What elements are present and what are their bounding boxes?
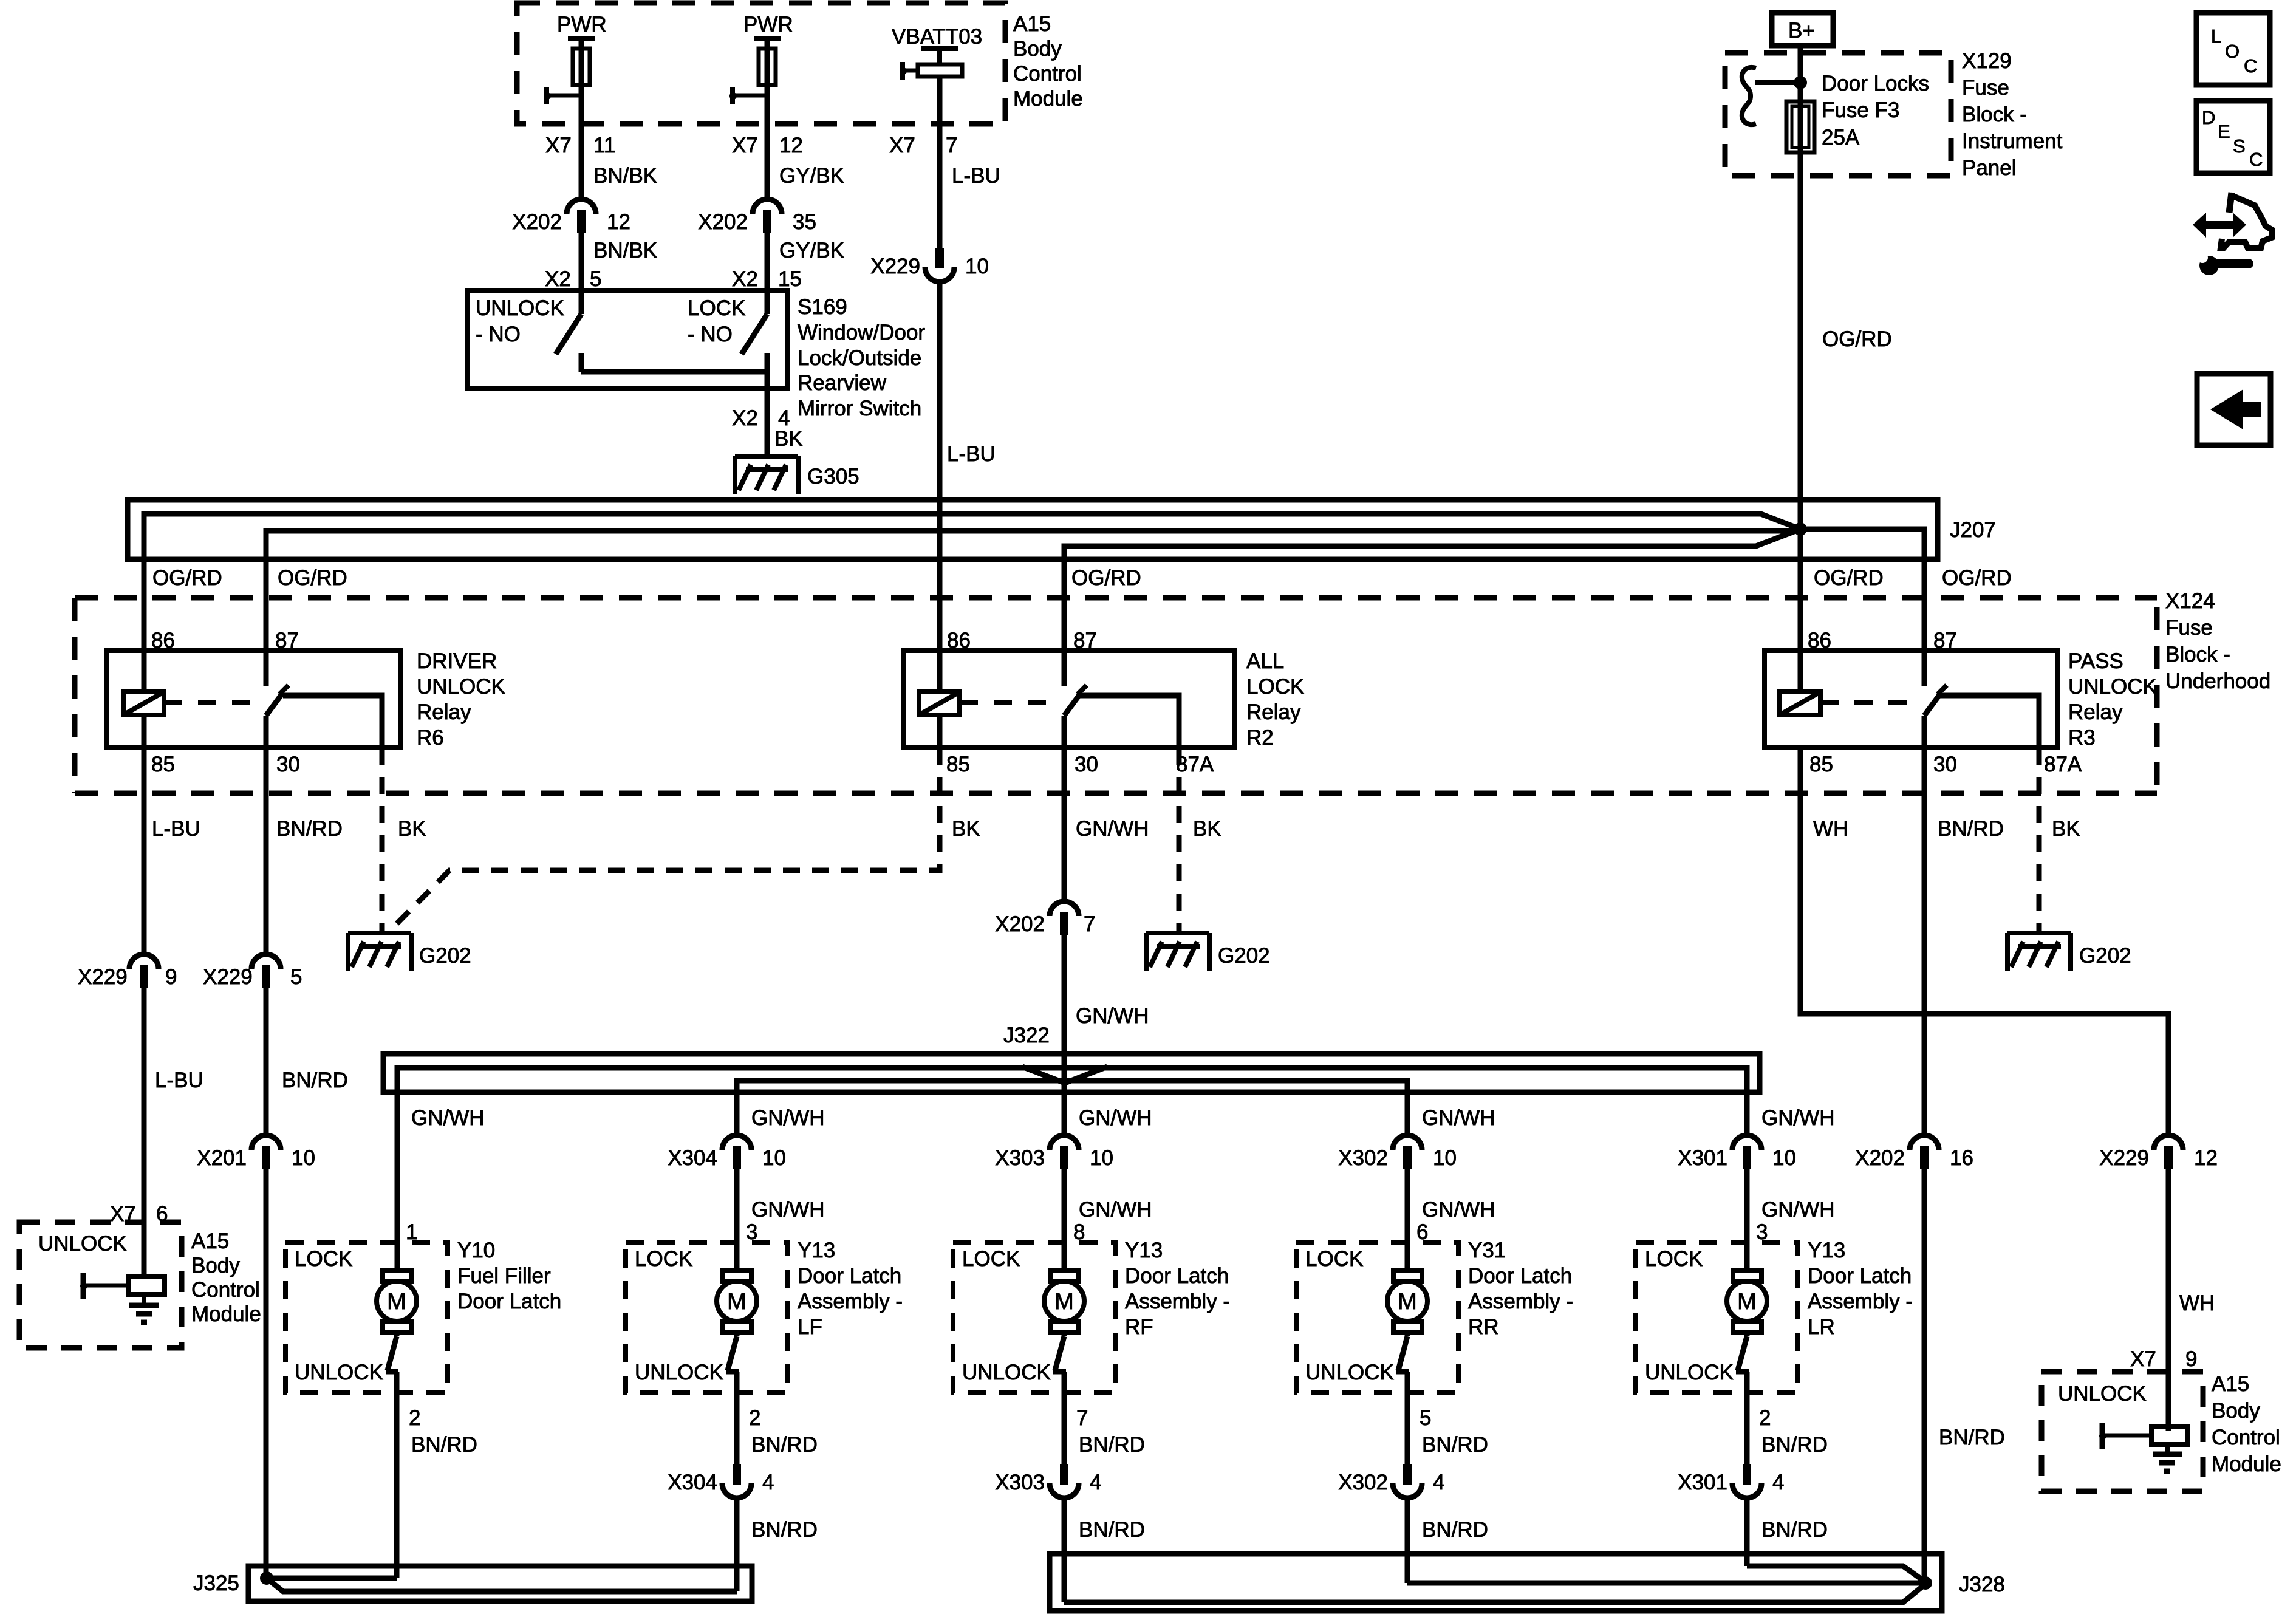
wire BN/RD fuel filler latch to J325	[394, 1372, 400, 1578]
svg-text:Door Latch: Door Latch	[457, 1290, 561, 1313]
svg-text:X7: X7	[2130, 1347, 2156, 1371]
svg-text:12: 12	[779, 134, 803, 157]
svg-text:LOCK: LOCK	[962, 1247, 1020, 1271]
wire OG/RD from J207 to relay R3 87	[1800, 529, 1924, 686]
svg-text:RR: RR	[1468, 1315, 1499, 1339]
svg-text:Block -: Block -	[2165, 643, 2230, 666]
svg-text:BK: BK	[952, 817, 980, 841]
svg-text:GY/BK: GY/BK	[779, 164, 844, 188]
svg-text:Assembly -: Assembly -	[1468, 1290, 1573, 1313]
svg-text:86: 86	[151, 629, 175, 652]
svg-text:X7: X7	[732, 134, 758, 157]
svg-text:X2: X2	[732, 267, 758, 291]
svg-text:GN/WH: GN/WH	[1761, 1198, 1835, 1222]
svg-text:BN/RD: BN/RD	[751, 1518, 818, 1542]
svg-text:X129: X129	[1962, 49, 2012, 73]
latch dashed box at x=653	[285, 1242, 448, 1393]
svg-text:Window/Door: Window/Door	[798, 321, 925, 344]
svg-text:Door Latch: Door Latch	[1468, 1264, 1572, 1288]
svg-text:BK: BK	[2052, 817, 2080, 841]
svg-text:UNLOCK: UNLOCK	[2058, 1382, 2147, 1406]
relay R6 DRIVER UNLOCK coil	[123, 692, 164, 715]
svg-text:M: M	[1737, 1289, 1757, 1314]
svg-text:5: 5	[590, 267, 601, 291]
svg-text:M: M	[1054, 1289, 1074, 1314]
wire inside J328 from X303-4	[1064, 1583, 1927, 1602]
svg-text:X7: X7	[545, 134, 572, 157]
terminal B+	[1772, 13, 1833, 46]
connector X229 pin 12	[2154, 1135, 2183, 1150]
wire GY/BK X202-35 to S169	[765, 233, 770, 290]
connector X229 pin 9	[129, 954, 159, 969]
svg-text:OG/RD: OG/RD	[1942, 566, 2012, 590]
svg-text:LR: LR	[1808, 1315, 1835, 1339]
svg-text:LOCK: LOCK	[1246, 675, 1304, 699]
connector X301 pin 4	[1743, 1464, 1751, 1485]
connector X202 pin 7	[1050, 901, 1079, 916]
svg-text:G202: G202	[2079, 944, 2131, 968]
icon back arrow box	[2197, 374, 2270, 445]
svg-text:LOCK: LOCK	[635, 1247, 692, 1271]
svg-text:PWR: PWR	[743, 13, 793, 36]
svg-text:C: C	[2244, 55, 2257, 77]
svg-text:9: 9	[2185, 1347, 2197, 1371]
wire L-BU VBATT03 X7-7 to X229-10	[937, 77, 943, 249]
wire L-BU relay R6 85 down to X229-9	[142, 715, 147, 957]
svg-text:L-BU: L-BU	[947, 442, 996, 466]
wire PWR output 1 (BCM internal)	[579, 38, 584, 202]
splice J322 bus outline	[383, 1054, 1760, 1092]
svg-text:4: 4	[762, 1471, 774, 1494]
svg-text:M: M	[1398, 1289, 1417, 1314]
svg-text:87A: 87A	[2044, 753, 2082, 776]
relay R3 PASS UNLOCK switch blade	[1924, 692, 1941, 716]
svg-text:Fuse: Fuse	[1962, 76, 2009, 100]
svg-text:Mirror Switch: Mirror Switch	[798, 397, 921, 420]
driver symbol (bottom right BCM)	[2100, 1423, 2105, 1449]
svg-text:5: 5	[290, 965, 302, 989]
wire inside J328 from X302-4	[1407, 1581, 1924, 1586]
motor M of latch at x=2876	[1733, 1270, 1761, 1281]
svg-text:X2: X2	[545, 267, 571, 291]
svg-text:Underhood: Underhood	[2165, 669, 2270, 693]
splice J322 arrowhead	[1022, 1067, 1107, 1083]
latch dashed box at x=1752	[953, 1242, 1115, 1393]
junction at fuse F3 tap	[1794, 76, 1807, 89]
svg-text:UNLOCK: UNLOCK	[1305, 1361, 1394, 1384]
relay R2 ALL LOCK coil	[919, 692, 960, 715]
svg-text:X304: X304	[668, 1146, 717, 1170]
svg-text:10: 10	[1433, 1146, 1457, 1170]
svg-text:Rearview: Rearview	[798, 371, 887, 395]
connector X201 pin 10	[251, 1135, 281, 1150]
svg-text:BN/BK: BN/BK	[593, 164, 657, 188]
svg-text:WH: WH	[1813, 817, 1848, 841]
svg-text:10: 10	[1090, 1146, 1113, 1170]
svg-text:UNLOCK: UNLOCK	[1645, 1361, 1734, 1384]
svg-text:BN/RD: BN/RD	[411, 1433, 477, 1457]
svg-text:B+: B+	[1788, 19, 1815, 43]
relay R3 PASS UNLOCK 87A wire	[1941, 696, 2039, 748]
svg-text:Y31: Y31	[1468, 1239, 1506, 1262]
wire OG/RD inside J207 to relay R6 86	[144, 514, 1800, 692]
svg-text:O: O	[2225, 41, 2240, 62]
svg-text:Y10: Y10	[457, 1239, 495, 1262]
svg-text:5: 5	[1420, 1406, 1431, 1430]
junction J325 splice	[260, 1571, 273, 1585]
connector X303 pin 4	[1060, 1464, 1068, 1485]
wire L-BU X229-10 to J207 crossing down to relay R2 coil	[937, 283, 943, 692]
wire inside J325 from fuel filler	[267, 1576, 397, 1581]
svg-text:A15: A15	[1013, 12, 1051, 36]
svg-text:UNLOCK: UNLOCK	[2068, 675, 2157, 699]
switch S169 UNLOCK-NO blade	[579, 290, 584, 314]
svg-text:OG/RD: OG/RD	[152, 566, 222, 590]
svg-text:Y13: Y13	[1808, 1239, 1845, 1262]
module X129 Fuse Block - Instrument Panel dashed box	[1725, 53, 1951, 176]
svg-text:UNLOCK: UNLOCK	[476, 296, 564, 320]
svg-text:30: 30	[1933, 753, 1957, 776]
wire GN/WH X302-10 to latch	[1405, 1169, 1410, 1270]
ground G202	[1146, 931, 1209, 935]
svg-text:BK: BK	[398, 817, 426, 841]
wire inside J328 from X301-4	[1747, 1566, 1927, 1583]
svg-text:RF: RF	[1125, 1315, 1153, 1339]
fuse F3 Door Locks 25A	[1786, 101, 1814, 152]
svg-text:2: 2	[1759, 1406, 1771, 1430]
svg-text:- NO: - NO	[476, 323, 521, 346]
wire GN/WH relay R2 30 down to X202-7	[1062, 716, 1067, 904]
icon DESC box	[2196, 101, 2270, 173]
relay R2 ALL LOCK coil to switch dashed link	[960, 700, 1056, 705]
svg-text:X301: X301	[1678, 1146, 1727, 1170]
connector X303 pin 10	[1050, 1135, 1079, 1150]
svg-text:Relay: Relay	[417, 700, 471, 724]
latch dashed box at x=2317	[1296, 1242, 1458, 1393]
svg-text:Body: Body	[191, 1254, 240, 1277]
svg-text:BN/BK: BN/BK	[593, 239, 657, 262]
svg-text:GN/WH: GN/WH	[1761, 1106, 1835, 1130]
junction J328 splice	[1919, 1576, 1932, 1590]
svg-text:L: L	[2211, 26, 2221, 47]
svg-text:Block -: Block -	[1962, 103, 2027, 126]
svg-text:L-BU: L-BU	[155, 1068, 203, 1092]
svg-text:UNLOCK: UNLOCK	[962, 1361, 1051, 1384]
svg-text:UNLOCK: UNLOCK	[295, 1361, 383, 1384]
relay R2 ALL LOCK 87A wire	[1081, 696, 1179, 748]
svg-text:4: 4	[1090, 1471, 1101, 1494]
wire WH relay R3 85 down and right to X229-12	[1800, 748, 2168, 1138]
wire GN/WH X301-10 to latch	[1744, 1169, 1750, 1270]
svg-text:BN/RD: BN/RD	[1938, 817, 2004, 841]
fuse PWR 1 internal	[568, 36, 595, 41]
svg-text:OG/RD: OG/RD	[1071, 566, 1141, 590]
wire BK relay R6 87A to G202 dashed	[380, 696, 385, 748]
switch S169 LOCK-NO blade	[765, 290, 770, 314]
motor M of latch at x=1213	[723, 1270, 751, 1281]
svg-text:12: 12	[2194, 1146, 2218, 1170]
svg-text:Control: Control	[1013, 62, 1082, 86]
svg-text:C: C	[2249, 149, 2263, 170]
svg-text:Door Latch: Door Latch	[1808, 1264, 1912, 1288]
svg-text:M: M	[387, 1289, 406, 1314]
svg-text:10: 10	[762, 1146, 786, 1170]
wire BN/RD X302-4 to splice bus	[1405, 1498, 1410, 1583]
svg-text:86: 86	[1808, 629, 1831, 652]
svg-text:J207: J207	[1950, 518, 1996, 542]
svg-text:A15: A15	[191, 1229, 229, 1253]
svg-text:X202: X202	[995, 912, 1045, 936]
svg-text:GY/BK: GY/BK	[779, 239, 844, 262]
module A15 Body Control Module (top) dashed box	[517, 3, 1005, 124]
svg-text:X229: X229	[2099, 1146, 2149, 1170]
connector X304 pin 10	[722, 1135, 751, 1150]
wire BK relay R2 87A to G202 dashed	[1177, 748, 1182, 931]
ground G305	[735, 454, 798, 459]
svg-text:GN/WH: GN/WH	[1422, 1106, 1495, 1130]
relay R6 DRIVER UNLOCK 87A wire	[283, 696, 382, 748]
svg-text:GN/WH: GN/WH	[411, 1106, 485, 1130]
svg-text:2: 2	[749, 1406, 760, 1430]
svg-text:S169: S169	[798, 295, 847, 319]
wire GN/WH inside J322 to X304-10 and X303-10	[737, 1081, 1407, 1138]
svg-text:Fuse: Fuse	[2165, 616, 2213, 640]
svg-text:11: 11	[593, 134, 615, 157]
wire BN/RD latch to X303-4	[1062, 1372, 1067, 1466]
svg-text:X229: X229	[870, 255, 920, 278]
svg-text:BK: BK	[1193, 817, 1221, 841]
svg-text:UNLOCK: UNLOCK	[417, 675, 505, 699]
svg-text:X201: X201	[197, 1146, 247, 1170]
module X124 Fuse Block - Underhood dashed box	[75, 595, 2157, 601]
wire BN/RD X202-16 to J328	[1922, 1169, 1927, 1583]
svg-text:X302: X302	[1338, 1471, 1388, 1494]
svg-text:87: 87	[1073, 629, 1097, 652]
svg-text:30: 30	[276, 753, 300, 776]
relay R2 ALL LOCK box	[903, 651, 1234, 748]
svg-text:E: E	[2218, 121, 2230, 142]
svg-text:10: 10	[1772, 1146, 1796, 1170]
svg-text:87: 87	[275, 629, 299, 652]
svg-text:LOCK: LOCK	[1645, 1247, 1703, 1271]
svg-text:Body: Body	[2212, 1399, 2260, 1423]
svg-text:BN/RD: BN/RD	[1422, 1518, 1488, 1542]
svg-text:9: 9	[165, 965, 177, 989]
latch dashed box at x=1213	[626, 1242, 788, 1393]
svg-text:X229: X229	[78, 965, 128, 989]
svg-text:DRIVER: DRIVER	[417, 649, 497, 673]
wire BN/BK X202-12 to S169	[579, 233, 584, 290]
wire OG/RD inside J207 to relay R6 87	[266, 531, 1795, 686]
svg-text:G202: G202	[1218, 944, 1270, 968]
wire GN/WH X303-10 to latch	[1062, 1169, 1067, 1270]
wire GN/WH from X202-7 into J322 splice	[1062, 932, 1067, 1138]
svg-text:BN/RD: BN/RD	[1079, 1433, 1145, 1457]
relay R3 PASS UNLOCK box	[1765, 651, 2058, 748]
svg-text:S: S	[2233, 135, 2246, 157]
svg-text:85: 85	[1809, 753, 1833, 776]
svg-text:LF: LF	[798, 1315, 822, 1339]
latch switch blade at x=653	[394, 1332, 400, 1336]
svg-text:Door Locks: Door Locks	[1822, 72, 1929, 95]
svg-text:L-BU: L-BU	[952, 164, 1000, 188]
relay R6 DRIVER UNLOCK switch blade	[266, 692, 283, 716]
latch switch blade at x=2876	[1744, 1332, 1750, 1336]
svg-text:BN/RD: BN/RD	[1939, 1426, 2005, 1449]
svg-text:R6: R6	[417, 726, 444, 750]
svg-text:X2: X2	[732, 406, 758, 430]
splice J207 bus outline	[128, 500, 1938, 559]
fuse VBATT03 internal	[921, 46, 958, 51]
svg-text:85: 85	[946, 753, 970, 776]
svg-text:BN/RD: BN/RD	[751, 1433, 818, 1457]
svg-text:OG/RD: OG/RD	[1814, 566, 1884, 590]
latch switch blade at x=1213	[734, 1332, 740, 1336]
svg-text:BN/RD: BN/RD	[1761, 1518, 1828, 1542]
svg-text:LOCK: LOCK	[1305, 1247, 1363, 1271]
svg-text:Assembly -: Assembly -	[1125, 1290, 1230, 1313]
svg-text:X302: X302	[1338, 1146, 1388, 1170]
motor M of latch at x=653	[383, 1270, 411, 1281]
svg-text:BK: BK	[774, 427, 803, 451]
connector X229 pin 5	[251, 954, 281, 969]
junction J207 splice	[1794, 522, 1807, 536]
svg-text:UNLOCK: UNLOCK	[38, 1232, 127, 1256]
svg-text:Module: Module	[1013, 87, 1083, 111]
wire BN/RD X229-5 to X201-10	[264, 987, 269, 1138]
wire BN/RD latch to X304-4	[734, 1372, 740, 1466]
svg-text:15: 15	[778, 267, 802, 291]
wire BK relay R2 85 to G202 dashed	[937, 715, 943, 748]
svg-text:PASS: PASS	[2068, 649, 2123, 673]
svg-text:Fuel Filler: Fuel Filler	[457, 1264, 551, 1288]
svg-text:X304: X304	[668, 1471, 717, 1494]
svg-text:PWR: PWR	[557, 13, 607, 36]
svg-text:R3: R3	[2068, 726, 2096, 750]
svg-text:Door Latch: Door Latch	[1125, 1264, 1229, 1288]
svg-text:R2: R2	[1246, 726, 1274, 750]
icon wrench	[2199, 256, 2219, 275]
svg-text:12: 12	[607, 210, 630, 234]
svg-text:GN/WH: GN/WH	[1422, 1198, 1495, 1222]
svg-text:LOCK: LOCK	[688, 296, 745, 320]
svg-text:4: 4	[1433, 1471, 1444, 1494]
svg-text:GN/WH: GN/WH	[1076, 817, 1149, 841]
svg-text:- NO: - NO	[688, 323, 733, 346]
svg-text:2: 2	[409, 1406, 420, 1430]
wire BN/RD X304-4 to splice bus	[734, 1498, 740, 1591]
latch switch blade at x=2317	[1405, 1332, 1410, 1336]
svg-text:GN/WH: GN/WH	[1079, 1106, 1152, 1130]
wire B+ feed OG/RD down to relay R3 coil	[1798, 46, 1803, 692]
motor M of latch at x=2317	[1393, 1270, 1422, 1281]
svg-text:OG/RD: OG/RD	[1822, 327, 1892, 351]
wire S169 output to X2-4	[765, 353, 770, 454]
svg-text:GN/WH: GN/WH	[1076, 1004, 1149, 1028]
svg-text:Assembly -: Assembly -	[1808, 1290, 1913, 1313]
svg-text:X229: X229	[203, 965, 253, 989]
svg-text:OG/RD: OG/RD	[278, 566, 347, 590]
svg-text:Body: Body	[1013, 37, 1062, 61]
wire OG/RD inside J207 to relay R2 87	[1064, 529, 1800, 686]
wire WH X229-12 to BCM X7-9	[2166, 1169, 2171, 1431]
svg-text:ALL: ALL	[1246, 649, 1284, 673]
svg-text:GN/WH: GN/WH	[1079, 1198, 1152, 1222]
svg-text:Fuse F3: Fuse F3	[1822, 98, 1899, 122]
svg-text:UNLOCK: UNLOCK	[635, 1361, 723, 1384]
fuse PWR 2 internal	[754, 36, 781, 41]
latch switch blade at x=1752	[1062, 1332, 1067, 1336]
connector X301 pin 10	[1732, 1135, 1761, 1150]
svg-text:A15: A15	[2212, 1372, 2249, 1396]
wire PWR output 2 (BCM internal)	[765, 38, 770, 202]
wire GN/WH inside J322 to fuel filler latch and X301-10	[397, 1068, 1747, 1270]
ground inside bottom right BCM	[2165, 1444, 2170, 1454]
connector X202 pin 35	[753, 199, 782, 214]
svg-text:Assembly -: Assembly -	[798, 1290, 903, 1313]
svg-text:16: 16	[1950, 1146, 1973, 1170]
connector X302 pin 4	[1403, 1464, 1412, 1485]
svg-text:GN/WH: GN/WH	[751, 1106, 825, 1130]
svg-text:GN/WH: GN/WH	[751, 1198, 825, 1222]
wire BN/RD latch to X302-4	[1405, 1372, 1410, 1466]
svg-text:G202: G202	[419, 944, 471, 968]
svg-text:Module: Module	[2212, 1452, 2281, 1476]
clip symbol at B+ tap	[1742, 67, 1756, 125]
svg-text:85: 85	[151, 753, 175, 776]
svg-text:Lock/Outside: Lock/Outside	[798, 346, 921, 370]
connector X202 pin 12	[567, 199, 596, 214]
splice J328 bus outline	[1050, 1554, 1942, 1611]
relay R6 DRIVER UNLOCK coil to switch dashed link	[164, 700, 258, 705]
ground inside bottom left BCM	[142, 1294, 146, 1305]
connector X302 pin 10	[1393, 1135, 1422, 1150]
splice J325 bus outline	[248, 1566, 752, 1601]
ground G202	[2007, 931, 2071, 935]
svg-text:86: 86	[947, 629, 971, 652]
svg-text:X202: X202	[1855, 1146, 1905, 1170]
driver symbol (bottom left BCM)	[81, 1273, 86, 1299]
svg-text:X202: X202	[512, 210, 562, 234]
svg-text:X301: X301	[1678, 1471, 1727, 1494]
svg-text:VBATT03: VBATT03	[892, 25, 982, 49]
switch S169 Window/Door Lock/Outside Rearview Mirror Switch box	[468, 290, 787, 388]
svg-text:BN/RD: BN/RD	[1761, 1433, 1828, 1457]
module A15 Body Control Module (bottom left) dashed box	[19, 1222, 182, 1348]
svg-text:G305: G305	[807, 465, 859, 488]
svg-text:X303: X303	[995, 1146, 1045, 1170]
svg-text:BN/RD: BN/RD	[1422, 1433, 1488, 1457]
svg-text:J325: J325	[193, 1571, 239, 1595]
svg-text:BN/RD: BN/RD	[282, 1068, 348, 1092]
module A15 Body Control Module (bottom right) dashed box	[2041, 1372, 2203, 1491]
connector X229 pin 10	[935, 248, 944, 268]
svg-text:Y13: Y13	[1125, 1239, 1163, 1262]
wire inside J325 to X304-4	[267, 1578, 737, 1591]
wire BN/RD X301-4 to splice bus	[1744, 1498, 1750, 1566]
wire BN/RD X303-4 to splice bus	[1062, 1498, 1067, 1602]
svg-text:4: 4	[1772, 1471, 1784, 1494]
svg-text:X124: X124	[2165, 589, 2215, 613]
svg-text:Door Latch: Door Latch	[798, 1264, 901, 1288]
svg-text:M: M	[727, 1289, 747, 1314]
relay R6 DRIVER UNLOCK box	[107, 651, 400, 748]
svg-text:LOCK: LOCK	[295, 1247, 352, 1271]
svg-text:35: 35	[793, 210, 816, 234]
svg-text:BN/RD: BN/RD	[276, 817, 343, 841]
svg-text:X202: X202	[698, 210, 748, 234]
icon vehicle outline with double arrow	[2229, 193, 2232, 213]
